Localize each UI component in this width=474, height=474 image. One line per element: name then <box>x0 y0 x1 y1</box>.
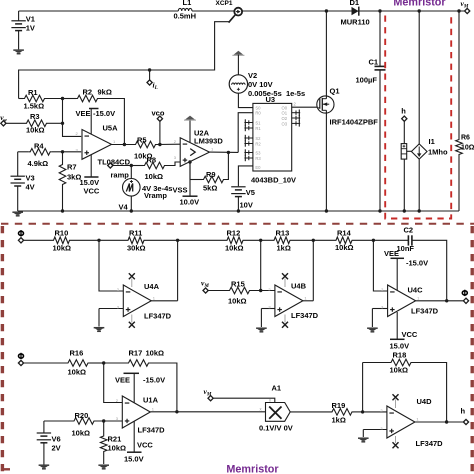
svg-text:10kΩ: 10kΩ <box>228 297 247 306</box>
svg-text:E0: E0 <box>255 165 261 170</box>
svg-text:LF347D: LF347D <box>416 439 444 448</box>
node vco <box>152 109 165 147</box>
svg-text:R16: R16 <box>70 349 84 358</box>
outer dashed box (bottom Memristor section) <box>1 224 474 474</box>
svg-text:R15: R15 <box>231 280 245 289</box>
source V4 Vramp <box>119 164 173 213</box>
ground below U4B plus input <box>256 328 267 332</box>
resistor R13 1k <box>259 229 313 253</box>
svg-text:Vramp: Vramp <box>144 191 167 200</box>
svg-text:h: h <box>401 106 406 115</box>
VCC rail U1A 15.0V <box>124 422 153 464</box>
svg-text:R3: R3 <box>255 156 261 161</box>
op-amp U2A LM393D <box>174 129 224 167</box>
capacitor C1 100uF <box>356 9 386 212</box>
wire U2A output to U3 <box>210 113 253 154</box>
svg-text:ramp: ramp <box>111 171 130 180</box>
svg-text:V1: V1 <box>26 15 35 24</box>
svg-text:U4B: U4B <box>291 282 307 291</box>
svg-text:LF347D: LF347D <box>411 307 439 316</box>
resistor R1 1.5k <box>19 88 63 111</box>
resistor R11 30k <box>97 229 177 253</box>
svg-text:VCC: VCC <box>137 441 153 450</box>
svg-text:S2: S2 <box>255 136 261 141</box>
svg-text:C2: C2 <box>404 226 414 235</box>
svg-text:A1: A1 <box>272 384 282 393</box>
svg-text:R10: R10 <box>55 229 69 238</box>
svg-text:10kΩ: 10kΩ <box>26 126 45 135</box>
svg-text:100µF: 100µF <box>356 76 378 85</box>
svg-text:0.1V/V 0V: 0.1V/V 0V <box>259 424 293 433</box>
svg-text:R0: R0 <box>255 111 261 116</box>
ground below U4C plus input <box>367 328 378 332</box>
ground below U4A plus input <box>94 328 105 332</box>
svg-text:R3: R3 <box>30 112 40 121</box>
svg-text:VEE: VEE <box>115 376 130 385</box>
node phi (upper left) <box>18 230 23 243</box>
diode D1 MUR110 <box>341 0 370 27</box>
svg-text:V6: V6 <box>52 435 61 444</box>
node h (probe input) <box>401 106 407 143</box>
svg-text:Memristor: Memristor <box>226 464 279 474</box>
wire Q1 drain <box>325 9 328 98</box>
svg-text:R6: R6 <box>461 135 470 142</box>
svg-text:U4C: U4C <box>408 286 424 295</box>
resistor R14 10k <box>312 229 374 253</box>
svg-text:R5: R5 <box>137 136 147 145</box>
node vM (to R15) <box>201 279 209 294</box>
svg-text:R1: R1 <box>255 126 261 131</box>
resistor R19 1k <box>290 401 362 425</box>
VEE rail U4C -15.0V <box>384 249 428 290</box>
svg-text:R1: R1 <box>28 88 38 97</box>
svg-text:LF347D: LF347D <box>144 311 172 320</box>
svg-text:15.0V: 15.0V <box>124 455 144 464</box>
op-amp U4C LF347D <box>372 240 464 327</box>
svg-text:9kΩ: 9kΩ <box>98 88 112 97</box>
battery V6 2V <box>37 421 61 465</box>
svg-text:O2: O2 <box>282 116 288 121</box>
svg-text:LF347D: LF347D <box>291 311 319 320</box>
svg-text:C1: C1 <box>369 58 379 67</box>
svg-text:R4: R4 <box>34 141 44 150</box>
node ramp <box>108 163 132 180</box>
svg-text:10nF: 10nF <box>397 244 415 253</box>
wire top rail from V1 to vM terminal <box>19 10 465 12</box>
ground below V6 <box>39 465 50 469</box>
svg-text:IRF1404ZPBF: IRF1404ZPBF <box>330 118 379 127</box>
svg-text:R11: R11 <box>129 229 142 238</box>
resistor R21 10k <box>100 421 126 464</box>
svg-text:0.005e-5s 1e-5s: 0.005e-5s 1e-5s <box>248 89 305 98</box>
svg-text:h: h <box>461 407 466 416</box>
svg-text:10kΩ: 10kΩ <box>390 366 409 375</box>
op-amp U1A LF347D <box>104 363 266 435</box>
ground below U4D plus input <box>358 438 369 442</box>
svg-text:VSS: VSS <box>173 186 188 195</box>
VCC rail U5A 15.0V <box>80 155 100 196</box>
wire U3 output O0 to Q1 gate <box>292 101 319 107</box>
svg-text:R20: R20 <box>75 411 89 420</box>
svg-text:R8: R8 <box>147 156 157 165</box>
svg-text:4043BD_10V: 4043BD_10V <box>251 176 296 185</box>
resistor R5 10k <box>112 136 181 161</box>
op-amp U5A TL084CD <box>76 124 131 167</box>
resistor R17 10k <box>102 349 177 412</box>
svg-text:10V: 10V <box>240 201 253 210</box>
inductor L1 0.5mH <box>174 0 197 21</box>
svg-text:5kΩ: 5kΩ <box>203 184 217 193</box>
resistor R3 10k <box>5 112 62 135</box>
svg-text:VCC: VCC <box>84 187 100 196</box>
svg-text:1kΩ: 1kΩ <box>332 416 346 425</box>
controlled source I1 1Mho <box>411 9 448 212</box>
probe XCP1 <box>216 0 243 23</box>
svg-text:-15.0V: -15.0V <box>93 109 115 118</box>
svg-text:V2: V2 <box>248 71 257 80</box>
resistor R6 10ohm <box>456 9 474 211</box>
resistor R7 3k <box>59 152 81 213</box>
svg-text:10kΩ: 10kΩ <box>225 244 244 253</box>
svg-text:10kΩ: 10kΩ <box>108 444 127 453</box>
label Memristor (top) <box>393 0 446 9</box>
svg-text:LM393D: LM393D <box>194 137 223 146</box>
svg-text:R17: R17 <box>129 349 143 358</box>
svg-text:R19: R19 <box>332 401 346 410</box>
resistor R4 4.9k <box>18 141 63 168</box>
svg-text:LF347D: LF347D <box>138 426 166 435</box>
power symbol above V2 <box>232 51 244 75</box>
svg-text:R21: R21 <box>108 435 122 444</box>
wire bottom rail (top section) <box>18 210 459 212</box>
battery V5 10V <box>231 187 255 213</box>
X no-connect below U4D <box>393 436 399 448</box>
svg-text:U1A: U1A <box>143 396 159 405</box>
svg-text:0V 10V: 0V 10V <box>248 80 273 89</box>
svg-text:-15.0V: -15.0V <box>143 376 165 385</box>
svg-text:U4D: U4D <box>417 397 433 406</box>
battery V1 1V <box>11 11 34 49</box>
svg-text:10Ω: 10Ω <box>461 145 474 152</box>
svg-text:R13: R13 <box>276 229 290 238</box>
svg-text:1Mho: 1Mho <box>428 148 448 157</box>
svg-text:MUR110: MUR110 <box>341 18 370 27</box>
node h (output) <box>461 407 469 425</box>
svg-text:R7: R7 <box>67 163 77 172</box>
resistor R9 5k <box>188 152 228 192</box>
svg-text:R18: R18 <box>393 351 407 360</box>
svg-text:30kΩ: 30kΩ <box>127 244 146 253</box>
svg-text:4V: 4V <box>26 183 35 192</box>
wire U3 E0 pin to V5 <box>238 166 253 186</box>
svg-text:10kΩ: 10kΩ <box>68 368 87 377</box>
source V2 pulse <box>229 71 305 108</box>
svg-text:10kΩ: 10kΩ <box>72 429 91 438</box>
svg-text:V4: V4 <box>119 203 129 212</box>
svg-text:VCC: VCC <box>402 330 418 339</box>
IC U3 4043BD_10V <box>244 95 300 185</box>
svg-text:10kΩ: 10kΩ <box>145 172 164 181</box>
resistor R20 10k <box>44 411 122 438</box>
svg-text:S1: S1 <box>255 120 261 125</box>
label Memristor (bottom) <box>226 464 279 474</box>
resistor R10 10k <box>23 229 99 253</box>
svg-text:1.5kΩ: 1.5kΩ <box>24 102 45 111</box>
op-amp U4D LF347D <box>363 397 464 448</box>
ground below V1 <box>13 50 24 54</box>
svg-text:D1: D1 <box>350 0 360 7</box>
svg-text:Memristor: Memristor <box>393 0 446 9</box>
svg-text:R2: R2 <box>255 141 261 146</box>
X no-connect above U4B <box>282 273 288 287</box>
op-amp U4A LF347D <box>99 240 178 326</box>
wire from top rail down to R1 input <box>19 22 230 99</box>
svg-text:vco: vco <box>152 109 165 118</box>
X no-connect below U4B <box>282 315 288 328</box>
X no-connect above U4D <box>393 394 399 408</box>
svg-text:0.5mH: 0.5mH <box>174 12 197 21</box>
op-amp U4B LF347D <box>261 240 318 327</box>
svg-text:O0: O0 <box>282 105 288 110</box>
node vM (to multiplier) <box>204 387 275 403</box>
svg-text:V3: V3 <box>26 174 35 183</box>
VCC rail U4C 15.0V <box>390 312 418 351</box>
power symbol above U2A <box>184 116 196 143</box>
multiplier A1 0.1V/V <box>259 384 293 433</box>
svg-text:U3: U3 <box>266 95 276 104</box>
svg-text:R14: R14 <box>337 229 352 238</box>
svg-text:10kΩ: 10kΩ <box>335 243 354 252</box>
svg-text:S0: S0 <box>255 105 261 110</box>
svg-text:2V: 2V <box>52 444 61 453</box>
svg-text:10kΩ: 10kΩ <box>53 244 72 253</box>
svg-text:XCP1: XCP1 <box>216 0 233 7</box>
ground below R21 <box>98 465 109 469</box>
node vw <box>0 113 7 126</box>
svg-text:1kΩ: 1kΩ <box>277 244 291 253</box>
VEE rail U1A -15.0V <box>115 373 165 402</box>
svg-text:V5: V5 <box>246 188 255 197</box>
svg-text:U5A: U5A <box>103 124 119 133</box>
node iL <box>147 68 158 91</box>
svg-text:-15.0V: -15.0V <box>406 259 428 268</box>
svg-text:R12: R12 <box>227 229 241 238</box>
wire Q1 source <box>325 110 328 212</box>
resistor R18 10k <box>361 351 447 423</box>
battery V3 4V <box>11 152 35 211</box>
VEE rail U5A -15.0V <box>76 109 116 135</box>
X no-connect below U4A <box>129 315 135 328</box>
svg-text:S3: S3 <box>255 150 261 155</box>
capacitor C2 10nF <box>372 226 447 301</box>
node vM (top right) <box>461 0 470 14</box>
svg-text:O3: O3 <box>282 121 288 126</box>
resistor R12 10k <box>176 229 261 253</box>
svg-text:10.0V: 10.0V <box>180 198 200 207</box>
resistor R2 9k <box>63 88 125 146</box>
transistor Q1 IRF1404ZPBF <box>317 87 378 127</box>
svg-text:U4A: U4A <box>144 282 160 291</box>
VSS rail U2A 10.0V <box>173 162 200 207</box>
wire U5A non-inverting node <box>61 150 81 153</box>
resistor R15 10k <box>208 240 275 305</box>
svg-text:15.0V: 15.0V <box>390 342 410 351</box>
svg-text:VEE: VEE <box>384 249 399 258</box>
memristor dashed box <box>385 16 451 219</box>
ground at V3 / rail <box>12 212 23 216</box>
resistor R16 10k <box>23 349 104 377</box>
svg-text:I1: I1 <box>429 137 435 146</box>
wire U5A inverting node <box>61 97 81 137</box>
svg-text:1V: 1V <box>26 23 35 32</box>
svg-text:VEE: VEE <box>76 109 91 118</box>
svg-text:L1: L1 <box>183 0 192 7</box>
svg-text:O1: O1 <box>282 111 288 116</box>
svg-text:R9: R9 <box>206 170 216 179</box>
resistor R8 10k <box>131 156 180 182</box>
node phi (output right) <box>462 290 468 304</box>
svg-text:10kΩ: 10kΩ <box>146 349 165 358</box>
node phi (lower left) <box>18 353 23 366</box>
svg-text:Q1: Q1 <box>330 87 340 96</box>
voltage probe box <box>401 144 411 213</box>
X no-connect above U4A <box>129 273 135 287</box>
svg-text:R2: R2 <box>83 88 93 97</box>
svg-text:4.9kΩ: 4.9kΩ <box>28 159 49 168</box>
